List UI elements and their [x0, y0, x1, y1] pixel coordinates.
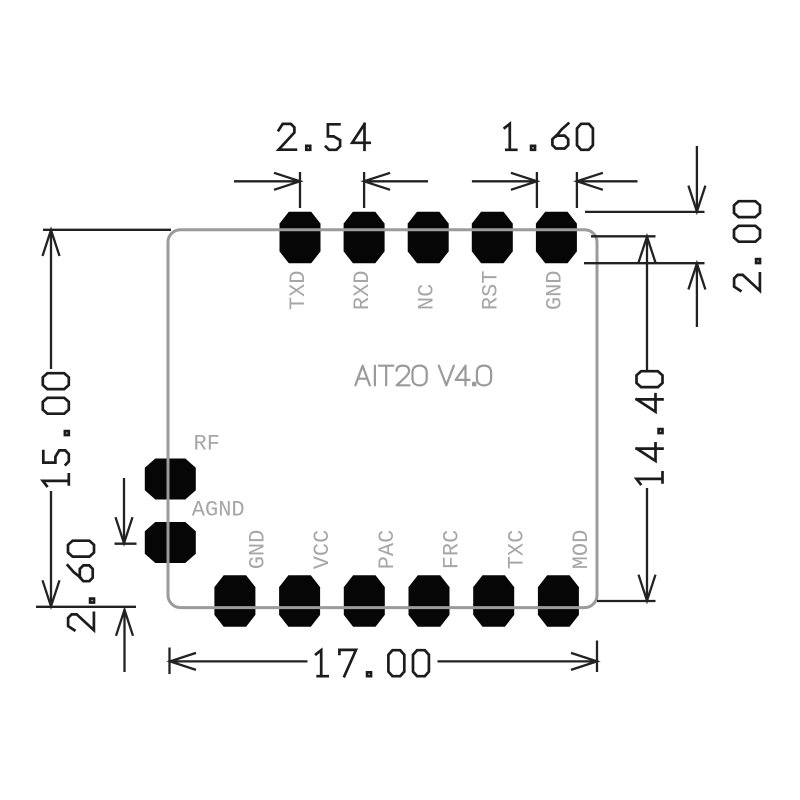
pad GND (bottom row) [214, 575, 255, 626]
dim 2.60: value text (rotated) [68, 541, 94, 631]
module body outline [168, 230, 597, 608]
dim 2.00: upper arrow pointing down [696, 146, 698, 212]
dim 1.60: extension tick at GND pad left edge [536, 172, 538, 208]
dim 15.00: top extension line [43, 229, 171, 231]
svg-text:RST: RST [478, 270, 503, 310]
dim 17.00: left extension tick [168, 648, 170, 675]
pad GND (top row) [536, 212, 577, 263]
dim 2.54: extension tick at pad RXD center [363, 172, 365, 208]
pad TXD (top row) [280, 212, 321, 263]
dim 14.40: dimension line lower segment with down arrow [646, 488, 648, 601]
pad AGND (left side) [145, 522, 196, 563]
dim 17.00: right arrow line [438, 660, 598, 662]
pad PAC (bottom row) [344, 575, 385, 626]
svg-text:PAC: PAC [375, 530, 400, 570]
svg-text:TXD: TXD [286, 270, 311, 310]
dim 17.00: right extension tick [596, 641, 598, 673]
dim 14.40: dimension line upper segment with up arrow [646, 237, 648, 370]
pad NC (top row) [408, 212, 449, 263]
pad FRC (bottom row) [409, 575, 450, 626]
dim 2.54: left arrow line [234, 180, 300, 182]
dim 2.00: value text (rotated) [734, 201, 760, 291]
pad RXD (top row) [344, 212, 385, 263]
dim 17.00: value text [316, 650, 429, 676]
pad RF (left side) [145, 459, 196, 500]
dim 17.00: left arrow line [170, 660, 308, 662]
dim 2.00: lower arrow pointing up [696, 264, 698, 328]
dim 2.60: upper arrow pointing down at AGND pad center line [123, 478, 125, 543]
dim 15.00: dimension line lower segment with down arrow [50, 491, 52, 606]
dim 2.54: extension tick at pad TXD center [299, 172, 301, 208]
svg-text:AGND: AGND [192, 498, 245, 523]
dim 14.40: bottom extension line at bottom pad centers [597, 600, 656, 602]
dim 1.60: extension tick at GND pad right edge [576, 172, 578, 208]
dim 2.60: lower arrow pointing up at module bottom [123, 610, 125, 672]
dim 2.00: extension line at pad bottom level [584, 262, 705, 264]
pad TXC (bottom row) [473, 575, 514, 626]
svg-text:VCC: VCC [310, 530, 335, 570]
dim 14.40: value text (rotated) [637, 371, 663, 484]
dim 1.60: left arrow line [472, 180, 537, 182]
dim 2.54: value text [279, 124, 370, 150]
dim 14.40: top extension line at top pad centers [591, 235, 656, 237]
svg-text:RXD: RXD [350, 270, 375, 310]
svg-text:TXC: TXC [504, 530, 529, 570]
dim 1.60: value text [505, 124, 593, 150]
dim 15.00: bottom extension line (shared with 2.60) [36, 606, 136, 608]
svg-text:NC: NC [414, 284, 439, 310]
svg-text:RF: RF [194, 432, 220, 457]
dim 1.60: right arrow line [577, 180, 638, 182]
svg-text:GND: GND [543, 270, 568, 310]
svg-text:GND: GND [246, 530, 271, 570]
label AIT20 V4.0 (module marking) [355, 366, 491, 386]
dim 2.60: tick at AGND pad center [115, 543, 137, 545]
dim 15.00: dimension line upper segment with up arrow [50, 230, 52, 369]
pad MOD (bottom row) [538, 575, 579, 626]
dim 15.00: value text (rotated) [43, 373, 69, 486]
dim 2.00: extension line at pad top level [585, 211, 705, 213]
svg-text:MOD: MOD [569, 530, 594, 570]
svg-text:FRC: FRC [440, 530, 465, 570]
pad RST (top row) [472, 212, 513, 263]
pad VCC (bottom row) [279, 575, 320, 626]
dim 2.54: right arrow line [364, 180, 428, 182]
